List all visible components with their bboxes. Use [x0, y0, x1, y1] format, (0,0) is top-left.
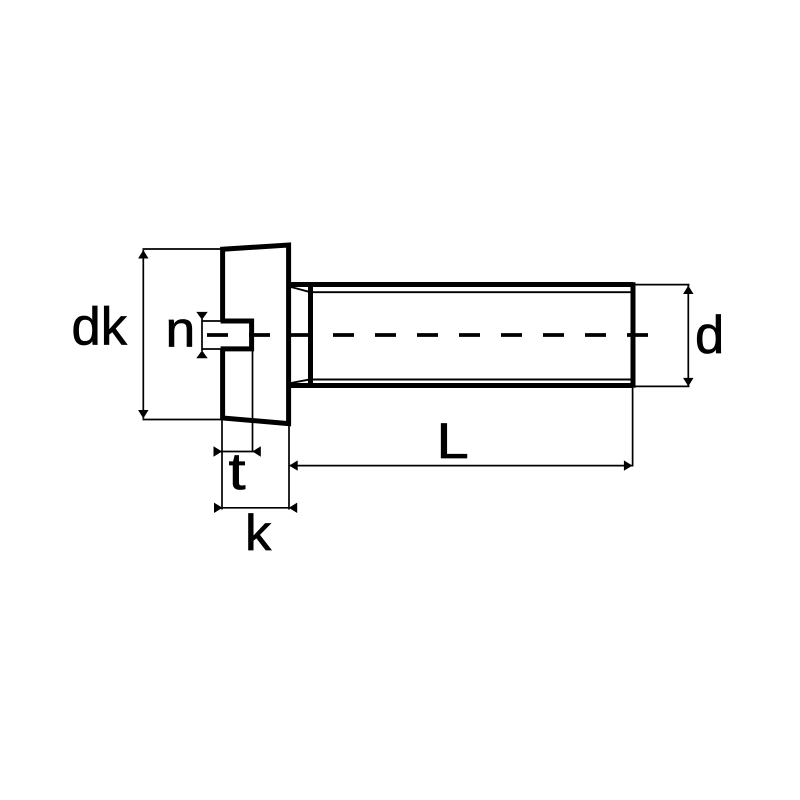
- n dimension line: [201, 319, 203, 351]
- t extension line left (head face, continues to k): [221, 421, 223, 510]
- n slot extension line top: [202, 320, 223, 322]
- L dimension line: [289, 465, 633, 467]
- n slot extension line bottom: [202, 348, 223, 350]
- svg-text:dk: dk: [72, 298, 128, 357]
- screw head outline (cheese head, side view): [223, 245, 289, 424]
- t arrow right (outside, points left): [252, 446, 260, 456]
- shaft bottom edge: [290, 383, 633, 388]
- svg-text:L: L: [437, 414, 469, 469]
- svg-text:t: t: [229, 443, 246, 501]
- k extension line right (under-head face, continues to L arrow): [288, 426, 290, 510]
- k dimension line: [223, 507, 289, 509]
- t extension line right (from slot bottom corner through head): [252, 349, 254, 452]
- d dimension line: [687, 286, 689, 387]
- svg-text:n: n: [166, 301, 196, 357]
- dk arrow bottom: [138, 410, 148, 419]
- thread root line bottom (thin): [313, 379, 634, 381]
- thread root line top (thin): [313, 291, 634, 293]
- dk dimension line: [142, 250, 144, 419]
- dk arrow top: [138, 250, 148, 259]
- n arrow top (points down): [196, 312, 207, 320]
- svg-text:k: k: [245, 505, 272, 561]
- slot (driver slot in head, thick outline): [221, 321, 252, 349]
- t dimension line: [214, 451, 261, 453]
- centerline (dashed axis): [207, 333, 648, 337]
- d arrow top: [683, 286, 693, 295]
- dk dimension extension line bottom: [143, 419, 226, 421]
- d arrow bottom: [683, 378, 693, 387]
- k arrow left (outside, points right): [214, 503, 222, 513]
- thread runout chamfer top: [291, 287, 311, 292]
- n arrow bottom (points up): [196, 350, 207, 358]
- thread runout chamfer bottom: [291, 379, 311, 383]
- L arrow right (points right): [624, 460, 633, 470]
- L extension line right (from shaft end): [632, 388, 634, 467]
- svg-text:d: d: [695, 306, 724, 365]
- t arrow left (outside, points right): [214, 446, 223, 456]
- shaft top edge: [290, 282, 633, 287]
- k arrow right (outside, points left): [289, 503, 297, 513]
- dk dimension extension line top: [143, 248, 226, 250]
- L arrow left (points left): [289, 460, 298, 470]
- shaft end face: [631, 282, 636, 387]
- thread runout line: [308, 282, 313, 387]
- d dimension extension line bottom: [633, 385, 690, 387]
- d dimension extension line top: [633, 284, 690, 286]
